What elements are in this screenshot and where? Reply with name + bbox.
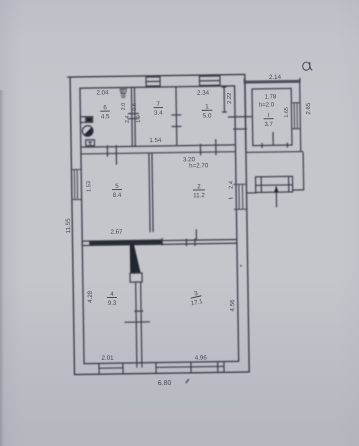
svg-text:4.56: 4.56 — [229, 299, 236, 312]
annex right wall window — [291, 103, 300, 129]
handwritten letter a — [303, 62, 313, 70]
window W2 top wall — [199, 76, 220, 86]
bottom wall window room 4 — [99, 363, 123, 374]
door jambs wall B room 2-3 — [186, 229, 196, 246]
room label 7 / 3.4 — [153, 101, 163, 117]
svg-text:6: 6 — [103, 104, 107, 111]
svg-text:11.55: 11.55 — [65, 218, 72, 234]
room label 4 / 9.3 — [107, 291, 117, 307]
svg-text:2.01: 2.01 — [101, 355, 114, 362]
svg-text:2.4: 2.4 — [229, 181, 235, 189]
svg-text:8.4: 8.4 — [113, 192, 122, 199]
room label 1 / 5.0 — [202, 103, 213, 119]
wall E rooms 5|2 — [149, 153, 153, 232]
wall F rooms 4|3 — [136, 282, 142, 368]
wall A rooms 6,7,1 / rooms 5,2 — [81, 145, 236, 154]
door threshold line wall F — [124, 321, 149, 323]
tick after 6.80 — [186, 379, 189, 383]
svg-text:5: 5 — [115, 183, 119, 190]
svg-text:2.14: 2.14 — [269, 74, 282, 81]
svg-text:3.7: 3.7 — [264, 122, 273, 128]
kitchen stove symbol room 6 — [80, 117, 92, 123]
dot on right wall — [240, 265, 242, 267]
svg-text:1: 1 — [205, 103, 209, 110]
porch left wall stub — [247, 192, 256, 194]
door labels wall C left — [121, 103, 131, 123]
svg-text:0.6: 0.6 — [132, 103, 138, 111]
svg-text:4.5: 4.5 — [101, 113, 110, 120]
svg-text:5.0: 5.0 — [203, 113, 212, 120]
svg-text:2: 2 — [197, 183, 201, 190]
bottom wall window room 3 — [156, 362, 224, 373]
door jambs wall A rooms 1-2 — [200, 139, 216, 155]
svg-text:2.65: 2.65 — [306, 102, 312, 114]
room label 3 / 17.1 — [188, 289, 204, 307]
svg-text:2.04: 2.04 — [96, 89, 109, 96]
window W1 top wall — [146, 77, 160, 86]
wall C rooms 6|7 — [131, 87, 135, 146]
vent symbol room 6 — [120, 89, 127, 98]
door jamb wall A rooms 6-5 — [107, 145, 116, 165]
water heater circle room 6 — [82, 126, 93, 137]
wall D rooms 7|1 — [175, 87, 178, 146]
svg-text:1.9: 1.9 — [136, 115, 142, 123]
svg-text:7: 7 — [156, 101, 160, 108]
dimension line 2.22 room 1 — [222, 87, 227, 112]
room label 6 / 4.5 — [100, 104, 110, 120]
annex inner box — [252, 88, 292, 145]
entrance arrow — [274, 185, 279, 207]
annex bottom door jambs — [262, 132, 288, 148]
svg-text:4.28: 4.28 — [87, 290, 94, 303]
svg-text:I: I — [268, 113, 270, 119]
annex outer outline — [245, 82, 301, 152]
door labels wall C right — [132, 103, 142, 123]
outer wall rectangle — [70, 74, 249, 374]
svg-text:2.4: 2.4 — [125, 115, 131, 123]
fixture box room 6 — [86, 140, 95, 146]
svg-text:h=2.0: h=2.0 — [259, 102, 275, 108]
pen overshoot bottom-left corner — [73, 374, 75, 376]
annex bottom outer line — [246, 151, 303, 154]
door ticks wall D — [171, 115, 181, 127]
svg-text:1.78: 1.78 — [265, 94, 277, 100]
svg-text:2.67: 2.67 — [110, 229, 123, 236]
room label 2 / 11.2 — [193, 183, 206, 199]
door tick wall F — [134, 310, 143, 312]
stove wedge wall F — [130, 244, 141, 274]
svg-text:2.34: 2.34 — [197, 90, 210, 97]
porch steps — [255, 176, 292, 192]
svg-text:h=2.70: h=2.70 — [189, 162, 209, 169]
room label 5 / 8.4 — [112, 183, 122, 199]
door threshold wall C — [128, 114, 139, 119]
svg-text:2.0: 2.0 — [121, 103, 127, 111]
svg-text:1.54: 1.54 — [149, 137, 162, 144]
svg-text:3.4: 3.4 — [154, 110, 163, 117]
svg-text:4.96: 4.96 — [195, 355, 208, 362]
svg-text:1.65: 1.65 — [284, 107, 290, 118]
door jamb wall E bottom — [161, 238, 163, 245]
inner wall rectangle — [80, 86, 239, 364]
dimension line 2.14 annex top — [244, 78, 300, 84]
svg-text:4: 4 — [110, 291, 114, 298]
svg-text:1.53: 1.53 — [86, 181, 92, 192]
wall B thick rooms 5,2 / rooms 4,3 — [82, 239, 237, 246]
svg-text:6.80: 6.80 — [158, 380, 172, 387]
svg-text:11.2: 11.2 — [193, 192, 205, 199]
entrance door room 2 right wall — [233, 184, 246, 209]
window left wall room 5 — [71, 169, 81, 199]
pen overshoot top-left corner — [67, 76, 70, 78]
door room 1 to annex right wall — [228, 117, 252, 130]
porch right boundary — [292, 152, 304, 190]
svg-text:17.1: 17.1 — [190, 298, 204, 308]
svg-text:2.22: 2.22 — [227, 93, 233, 104]
svg-text:9.3: 9.3 — [108, 300, 117, 307]
stove box below wedge — [130, 273, 142, 282]
annex room label I / 3.7 — [263, 113, 273, 128]
